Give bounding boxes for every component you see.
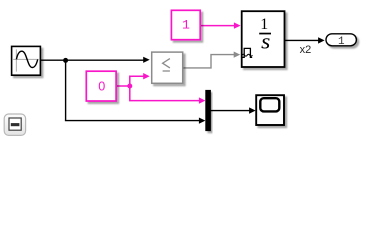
block: integrator 1/s (242, 11, 285, 67)
relational op symbol: underline (163, 70, 170, 72)
scope screen (260, 98, 279, 111)
svg-text:0: 0 (98, 79, 105, 93)
wire: constant 0 output (magenta) (117, 85, 131, 87)
block: sine wave source (12, 46, 41, 75)
block: scope (256, 95, 284, 125)
integrator fraction bar (259, 33, 271, 35)
svg-text:1: 1 (338, 36, 345, 48)
collapse button minus bar (11, 123, 20, 126)
arrowhead into mux input 1 (199, 97, 206, 103)
wire: magenta branch down to mux input 1 (130, 86, 200, 101)
node: magenta junction (127, 84, 132, 89)
block: relational operator (gray) (152, 52, 183, 83)
integrator reset icon squiggle (242, 54, 252, 56)
wire: mux output to scope (210, 110, 250, 112)
block: constant C1 value 1 (magenta highlighted) (171, 10, 200, 39)
wire: constant 1 to integrator (magenta) (201, 25, 236, 27)
wire: junction down (65, 60, 67, 120)
arrowhead into integrator input 1 (234, 22, 241, 28)
arrowhead into scope (249, 107, 256, 113)
sine icon horizontal axis (13, 58, 38, 60)
wire: sine to relational operator (41, 59, 145, 61)
block: outport 1 (326, 34, 356, 46)
arrowhead into integrator reset port (234, 52, 241, 58)
svg-text:x2: x2 (300, 44, 312, 56)
arrowhead into relational op input 2 (143, 73, 150, 79)
arrowhead into relational op input 1 (143, 57, 150, 63)
arrowhead into outport (318, 37, 325, 43)
sine icon curve (16, 51, 37, 67)
wire: bottom run to mux input 2 (65, 120, 200, 122)
node: junction on sine wire (63, 58, 68, 63)
sine icon vertical axis (15, 49, 17, 71)
wire: integrator output to outport (285, 39, 319, 41)
button: collapse (minus) control (4, 114, 25, 135)
wire: relational op output to integrator reset (gray) (183, 55, 234, 68)
arrowhead into mux input 2 (199, 118, 206, 124)
wire: magenta branch up to relational op input 2 (130, 76, 145, 86)
integrator external reset pulse icon (242, 48, 252, 57)
relational op symbol: less-than (163, 59, 170, 68)
block: mux (206, 90, 211, 130)
svg-text:s: s (261, 28, 270, 53)
block: constant C2 value 0 (magenta highlighted) (86, 71, 116, 101)
collapse button inner square (9, 118, 21, 130)
svg-text:1: 1 (182, 17, 190, 32)
